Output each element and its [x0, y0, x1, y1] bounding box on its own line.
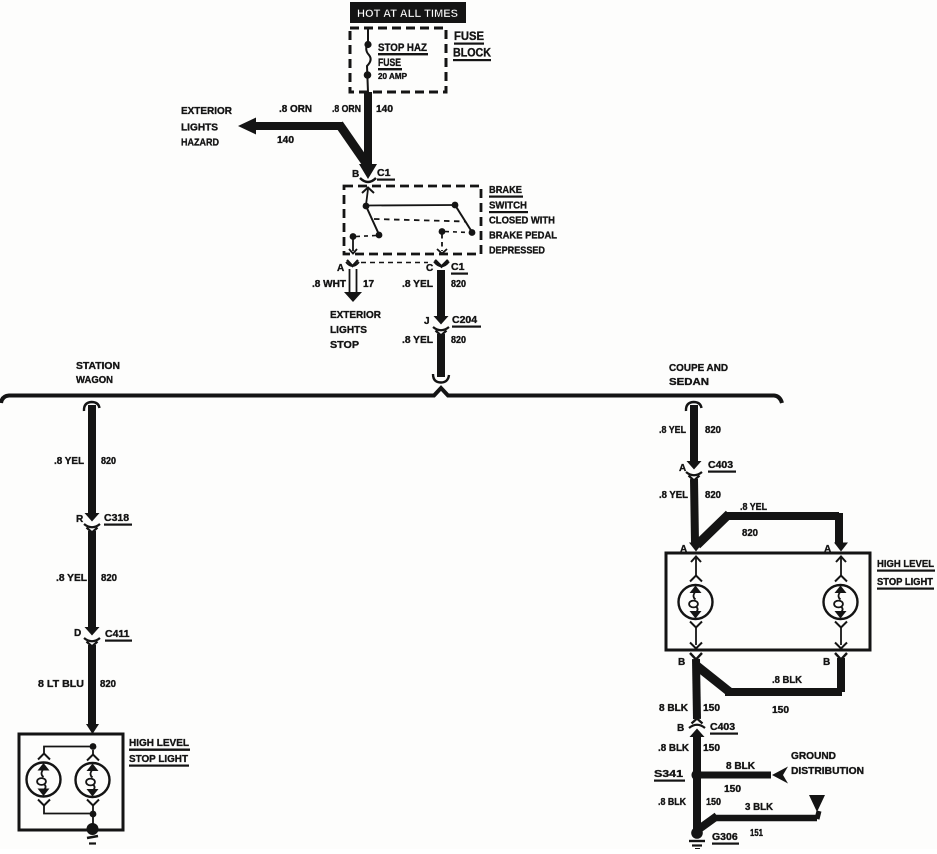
- arrow into right box right A: [824, 543, 848, 556]
- bulb left-box right: [76, 763, 110, 806]
- svg-text:STOP: STOP: [330, 339, 359, 351]
- option brace bus: [1, 388, 782, 403]
- bulb right-box right: [824, 557, 858, 649]
- label .8 WHT 17: [312, 279, 375, 290]
- label .8 YEL 820: [659, 490, 721, 501]
- svg-text:8 BLK: 8 BLK: [659, 703, 689, 714]
- connector right box left B: [678, 653, 702, 668]
- label .8 ORN 140 hazard: [277, 104, 312, 146]
- svg-text:B: B: [823, 657, 830, 668]
- svg-text:820: 820: [705, 425, 721, 436]
- fuse STOP HAZ 20A: [364, 28, 372, 92]
- connector right box right B: [823, 653, 847, 668]
- bulb left-box left: [27, 763, 61, 806]
- svg-text:820: 820: [742, 528, 758, 539]
- wire end curl: [433, 374, 449, 383]
- svg-text:COUPE AND: COUPE AND: [669, 362, 728, 374]
- svg-text:STOP HAZ: STOP HAZ: [378, 42, 427, 54]
- svg-text:820: 820: [101, 573, 117, 584]
- C1 dashed link A to C: [361, 262, 428, 264]
- svg-text:C318: C318: [104, 512, 129, 524]
- hot-at-all-times banner: [350, 2, 466, 23]
- svg-text:G306: G306: [712, 831, 738, 843]
- fuse label: [378, 42, 428, 81]
- svg-text:.8 YEL: .8 YEL: [659, 425, 686, 436]
- svg-text:STOP LIGHT: STOP LIGHT: [877, 576, 934, 588]
- label high level stop light left: [129, 737, 190, 767]
- svg-text:LIGHTS: LIGHTS: [181, 122, 218, 134]
- wire 820 YEL coupe: [690, 405, 698, 461]
- svg-text:FUSE: FUSE: [454, 29, 484, 43]
- connector C204 pin J: [433, 316, 449, 336]
- fuse block label: [453, 29, 491, 61]
- wire 820 YEL segment 2: [88, 531, 96, 627]
- label B C1: [352, 167, 395, 181]
- svg-text:SWITCH: SWITCH: [489, 200, 527, 212]
- left drop curl: [84, 402, 100, 411]
- connector C1 pin B arrow: [359, 164, 377, 182]
- svg-text:HAZARD: HAZARD: [181, 137, 219, 149]
- label .8 BLK 150: [658, 743, 720, 754]
- label .8 YEL 820: [56, 573, 117, 584]
- arrow into right box left A: [680, 543, 703, 556]
- label ground distribution: [791, 751, 864, 777]
- svg-text:150: 150: [703, 703, 720, 714]
- left box interior wiring: [38, 743, 99, 760]
- svg-text:C403: C403: [710, 721, 735, 733]
- svg-text:.8 YEL: .8 YEL: [659, 490, 688, 501]
- wire 150 BLK right lamp return: [697, 658, 842, 692]
- svg-text:140: 140: [277, 135, 294, 146]
- svg-text:J: J: [424, 316, 430, 327]
- svg-text:820: 820: [100, 679, 116, 690]
- svg-text:150: 150: [772, 705, 789, 716]
- wire 820 YEL station wagon: [88, 405, 96, 513]
- hollow arrow exterior lights stop: [344, 269, 362, 302]
- label .8 YEL 820: [402, 279, 466, 290]
- svg-text:B: B: [677, 723, 684, 734]
- label .8 YEL 820 branch: [740, 502, 767, 539]
- svg-text:A: A: [337, 263, 344, 274]
- label J C204: [424, 314, 481, 328]
- svg-text:820: 820: [451, 335, 466, 346]
- svg-text:STATION: STATION: [76, 360, 120, 372]
- svg-text:STOP LIGHT: STOP LIGHT: [129, 753, 189, 765]
- bulb right-box left: [679, 557, 713, 649]
- svg-text:SEDAN: SEDAN: [669, 376, 709, 388]
- label G306: [712, 831, 739, 845]
- svg-text:.8 BLK: .8 BLK: [772, 675, 803, 686]
- label station wagon: [76, 360, 120, 386]
- label high level stop light right: [877, 558, 935, 590]
- wire 150 BLK to G306: [693, 775, 701, 829]
- wire 140 ORN fuse to C1: [364, 92, 372, 166]
- wire hazard branch arrow: [238, 118, 366, 164]
- svg-text:DEPRESSED: DEPRESSED: [489, 245, 545, 257]
- svg-text:B: B: [352, 169, 359, 180]
- left box bottom wiring: [44, 806, 96, 827]
- svg-text:8 BLK: 8 BLK: [726, 761, 756, 772]
- label 8 LT BLU 820: [38, 679, 116, 690]
- left high level stop light box: [19, 734, 123, 830]
- wire 820 YEL below C403: [694, 479, 695, 543]
- wire 820 YEL to brace: [437, 334, 445, 377]
- label 8 BLK 150: [659, 703, 720, 714]
- svg-text:150: 150: [724, 784, 741, 795]
- label 3 BLK 151: [745, 802, 774, 839]
- label D C411: [74, 628, 132, 642]
- wire 151 BLK branch: [699, 795, 825, 829]
- svg-text:D: D: [74, 628, 81, 639]
- svg-text:WAGON: WAGON: [76, 374, 113, 386]
- svg-text:.8 WHT: .8 WHT: [312, 279, 346, 290]
- svg-text:GROUND: GROUND: [791, 751, 836, 762]
- svg-text:B: B: [678, 657, 685, 668]
- label .8 BLK 150 return: [772, 675, 803, 716]
- right high level stop light box: [666, 553, 870, 650]
- wire 150 BLK to S341: [693, 737, 701, 775]
- right drop curl: [686, 402, 702, 411]
- svg-text:820: 820: [101, 456, 116, 467]
- svg-text:BLOCK: BLOCK: [453, 46, 491, 60]
- label exterior lights stop: [330, 309, 381, 351]
- svg-text:8 LT BLU: 8 LT BLU: [38, 679, 84, 690]
- label exterior lights hazard: [181, 105, 232, 149]
- connector C1 pin C: [434, 260, 449, 267]
- label coupe and sedan: [669, 362, 728, 388]
- wire to ground distribution: [700, 767, 788, 784]
- fuse block dashed box: [350, 28, 446, 92]
- svg-text:.8 YEL: .8 YEL: [56, 573, 87, 584]
- connector C403 pin B: [689, 719, 705, 738]
- svg-text:.8 ORN: .8 ORN: [279, 104, 312, 115]
- ground G306: [689, 827, 705, 849]
- svg-text:C204: C204: [452, 314, 477, 326]
- svg-text:BRAKE PEDAL: BRAKE PEDAL: [489, 230, 558, 242]
- svg-text:S341: S341: [654, 768, 683, 780]
- ground terminal left box: [87, 823, 99, 844]
- svg-text:HIGH LEVEL: HIGH LEVEL: [129, 737, 190, 749]
- wire branch to right lamp A: [697, 513, 839, 545]
- svg-text:HOT AT ALL TIMES: HOT AT ALL TIMES: [357, 8, 458, 20]
- wire 820 YEL from C: [437, 270, 445, 316]
- svg-text:.8 YEL: .8 YEL: [402, 335, 433, 346]
- svg-text:C1: C1: [377, 167, 391, 179]
- brake switch internals: [349, 188, 475, 254]
- svg-text:140: 140: [376, 104, 393, 115]
- label .8 ORN 140: [332, 104, 393, 115]
- svg-text:CLOSED WITH: CLOSED WITH: [489, 215, 555, 227]
- svg-text:3 BLK: 3 BLK: [745, 802, 774, 813]
- svg-text:BRAKE: BRAKE: [489, 184, 522, 196]
- svg-text:.8 YEL: .8 YEL: [402, 279, 433, 290]
- connector C411 pin D: [84, 627, 100, 647]
- svg-text:820: 820: [451, 279, 466, 290]
- svg-text:R: R: [76, 514, 84, 525]
- svg-text:17: 17: [363, 279, 375, 290]
- svg-text:151: 151: [750, 828, 763, 839]
- label A C403: [679, 459, 736, 474]
- connector C403 pin A: [686, 461, 702, 481]
- label .8 YEL 820: [659, 425, 721, 436]
- svg-text:150: 150: [703, 743, 720, 754]
- label brake switch: [489, 184, 558, 257]
- connector C318 pin R: [84, 513, 100, 533]
- svg-text:FUSE: FUSE: [378, 57, 401, 69]
- label B C403: [677, 721, 738, 735]
- svg-text:.8 YEL: .8 YEL: [740, 502, 767, 513]
- svg-text:DISTRIBUTION: DISTRIBUTION: [791, 766, 864, 777]
- svg-text:.8 YEL: .8 YEL: [54, 456, 84, 467]
- svg-text:C411: C411: [105, 628, 130, 640]
- svg-text:20 AMP: 20 AMP: [378, 71, 407, 81]
- wire 150 BLK main down: [696, 659, 697, 719]
- svg-text:EXTERIOR: EXTERIOR: [330, 309, 381, 321]
- svg-text:.8 BLK: .8 BLK: [658, 743, 690, 754]
- label 8 BLK 150 grd: [724, 761, 756, 795]
- svg-text:C1: C1: [451, 261, 465, 273]
- svg-text:A: A: [679, 463, 686, 474]
- label .8 BLK 150: [658, 797, 721, 808]
- label A C C1: [337, 261, 468, 275]
- svg-text:C403: C403: [708, 459, 733, 471]
- svg-text:.8 ORN: .8 ORN: [332, 104, 361, 115]
- arrow into left lamp box: [86, 724, 99, 734]
- label .8 YEL 820: [54, 456, 116, 467]
- svg-text:HIGH LEVEL: HIGH LEVEL: [877, 558, 935, 570]
- svg-text:820: 820: [705, 490, 721, 501]
- splice S341: [654, 768, 703, 782]
- svg-text:150: 150: [706, 797, 721, 808]
- label .8 YEL 820: [402, 335, 466, 346]
- svg-text:EXTERIOR: EXTERIOR: [181, 105, 232, 117]
- brake switch dashed box: [344, 186, 481, 254]
- svg-text:LIGHTS: LIGHTS: [330, 324, 367, 336]
- svg-text:C: C: [426, 263, 433, 274]
- svg-text:.8 BLK: .8 BLK: [658, 797, 687, 808]
- connector C1 pin A: [346, 260, 359, 266]
- wire 820 LT BLU: [88, 645, 96, 725]
- label R C318: [76, 512, 132, 526]
